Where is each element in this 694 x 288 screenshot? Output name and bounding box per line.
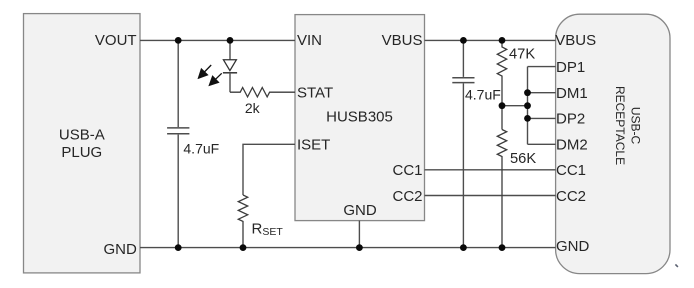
- svg-text:CC2: CC2: [392, 188, 422, 205]
- junction dot bus/DP2: [524, 115, 531, 122]
- svg-text:CC1: CC1: [556, 162, 586, 179]
- junction dot VOUT/C1: [175, 37, 182, 44]
- USB-A plug J1: [24, 14, 141, 273]
- svg-text:GND: GND: [103, 241, 137, 258]
- junction dot R2/R3 midpoint: [499, 102, 506, 109]
- capacitor C2 4.7uF: [452, 40, 474, 247]
- junction dot VOUT/LED: [227, 37, 234, 44]
- svg-text:HUSB305: HUSB305: [326, 108, 393, 125]
- wire DP2 stub: [528, 117, 556, 119]
- svg-text:ISET: ISET: [297, 137, 330, 154]
- wire VOUT to VIN: [140, 39, 295, 41]
- svg-text:CC2: CC2: [556, 188, 586, 205]
- svg-text:2k: 2k: [245, 100, 261, 116]
- wire DM2 stub: [528, 143, 556, 145]
- junction dot bus/DM1: [524, 89, 531, 96]
- LED D1 emission arrows: [199, 65, 222, 85]
- svg-text:GND: GND: [343, 202, 377, 219]
- resistor R3 56K with leads: [497, 130, 506, 248]
- capacitor C1 4.7uF: [167, 40, 189, 247]
- resistor RSET: [238, 195, 247, 248]
- wire U1 GND pin to rail: [358, 221, 360, 248]
- svg-text:VBUS: VBUS: [382, 32, 423, 49]
- svg-text:RSET: RSET: [252, 221, 284, 239]
- LED D1: [223, 40, 237, 92]
- svg-text:USB-A: USB-A: [59, 127, 105, 144]
- wire DM1 stub: [528, 92, 556, 94]
- svg-text:DM1: DM1: [556, 85, 588, 102]
- op-amp U1 HUSB305 box: [295, 15, 425, 221]
- junction dot VBUS/C2: [460, 37, 467, 44]
- junction dot bus/midpoint: [524, 102, 531, 109]
- svg-text:47K: 47K: [509, 46, 535, 62]
- junction dot GND/U1: [356, 244, 363, 251]
- svg-text:GND: GND: [556, 238, 590, 255]
- wire STAT segment and resistor R1 2k: [230, 88, 295, 97]
- resistor R2 47K with leads: [497, 40, 506, 129]
- junction dot VBUS/R2: [499, 37, 506, 44]
- wire VBUS U1 to J2: [425, 39, 556, 41]
- wire DP1 stub: [528, 66, 556, 68]
- junction dot GND/C2: [460, 244, 467, 251]
- stray mark bottom right: [675, 264, 678, 267]
- svg-text:4.7uF: 4.7uF: [465, 86, 501, 102]
- svg-text:RECEPTACLE: RECEPTACLE: [613, 86, 627, 165]
- svg-text:STAT: STAT: [297, 85, 333, 102]
- wire CC2: [425, 195, 556, 197]
- svg-text:DP1: DP1: [556, 59, 585, 76]
- junction dot GND/RSET: [240, 244, 247, 251]
- junction dot GND/R3: [499, 244, 506, 251]
- wire CC1: [425, 169, 556, 171]
- wire DP-DM bus vertical: [527, 67, 529, 145]
- wire ISET to RSET: [243, 144, 295, 195]
- svg-text:4.7uF: 4.7uF: [183, 141, 219, 157]
- svg-text:DM2: DM2: [556, 137, 588, 154]
- wire midpoint of R2/R3 to DP-DM bus: [502, 105, 528, 107]
- svg-text:USB-C: USB-C: [629, 107, 643, 145]
- USB-C receptacle J2: [556, 14, 670, 273]
- svg-text:56K: 56K: [510, 151, 536, 167]
- junction dot GND/C1: [175, 244, 182, 251]
- svg-text:VBUS: VBUS: [555, 32, 596, 49]
- svg-text:DP2: DP2: [556, 111, 585, 128]
- svg-text:PLUG: PLUG: [61, 144, 102, 161]
- svg-text:VIN: VIN: [297, 32, 322, 49]
- svg-text:CC1: CC1: [392, 162, 422, 179]
- svg-text:VOUT: VOUT: [95, 32, 137, 49]
- wire GND rail: [140, 247, 556, 249]
